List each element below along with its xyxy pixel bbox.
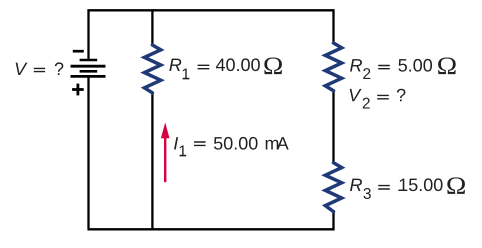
battery plus terminal sign	[72, 84, 84, 96]
wire left bottom (battery bottom down to bottom-left corner)	[87, 76, 89, 228]
label V = ?	[16, 62, 64, 75]
label R3 = 15.00 ohm	[350, 177, 465, 199]
wire top (battery top up, across top, down to R2 top)	[89, 10, 334, 60]
label I1 = 50.00 mA	[174, 137, 289, 156]
wire middle branch top (top wire down to R1)	[151, 9, 153, 45]
wire bottom (bottom-left corner across to R3 bottom)	[87, 211, 333, 229]
battery minus terminal sign	[73, 50, 84, 53]
resistor R1 (zigzag)	[144, 45, 160, 93]
label R1 = 40.00 ohm	[169, 58, 282, 80]
current arrow I1 (points up)	[161, 122, 170, 182]
wire right middle (R2 bottom to R3 top)	[332, 91, 334, 163]
resistor R3 (zigzag)	[325, 163, 341, 212]
label R2 = 5.00 ohm	[350, 58, 456, 79]
battery V (voltage source, 4 plates)	[71, 60, 106, 76]
label V2 = ?	[350, 89, 406, 109]
resistor R2 (zigzag)	[325, 43, 341, 91]
wire middle branch bottom (R1 bottom down to bottom wire)	[151, 93, 153, 230]
